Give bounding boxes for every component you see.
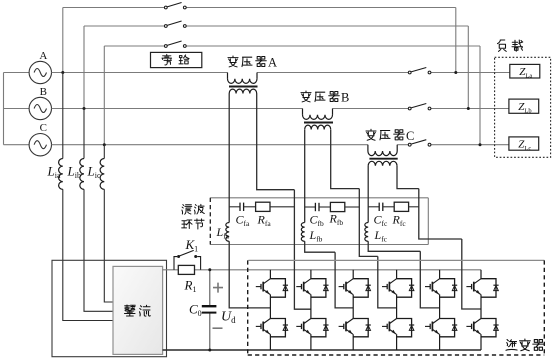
wire: DC- rail xyxy=(163,349,481,351)
label 变压器A xyxy=(228,56,277,70)
label R_fb xyxy=(329,212,344,228)
inductor L_ia xyxy=(59,159,63,190)
label C0 xyxy=(189,302,202,319)
filter section box (滤波环节) xyxy=(210,198,428,245)
load dashed box (负载) xyxy=(495,57,551,157)
label R_fc xyxy=(392,213,407,229)
svg-text:Cfc: Cfc xyxy=(374,213,389,229)
resistor R1 xyxy=(178,265,194,274)
AC source B xyxy=(29,86,51,120)
svg-text:Cfb: Cfb xyxy=(310,213,325,229)
junction dots: bypass taps xyxy=(61,71,481,146)
switch: line switch phase B xyxy=(408,104,431,110)
IGBT leg 2: Q3 (top), Q4 (bottom) with antiparallel diodes xyxy=(296,270,328,350)
svg-text:Cfa: Cfa xyxy=(236,213,251,229)
svg-text:Lic: Lic xyxy=(87,164,101,181)
rectifier block (整流) xyxy=(113,266,163,354)
label L_fc xyxy=(374,228,388,244)
rectifier outer enclosure box xyxy=(52,260,167,356)
switch: bypass phase C xyxy=(164,41,186,47)
wire: transformer A secondary right -> inverter leg2 xyxy=(257,94,311,310)
inverter dashed box (逆变器) xyxy=(248,260,545,355)
svg-text:C: C xyxy=(40,122,47,134)
wire: left bus joining sources xyxy=(4,73,30,145)
label 滤波环节 xyxy=(182,204,205,229)
svg-text:Lib: Lib xyxy=(67,164,81,181)
label Ud xyxy=(221,310,236,326)
load impedance ZLb xyxy=(509,99,539,114)
label 逆变器 xyxy=(506,339,544,351)
svg-text:Lfb: Lfb xyxy=(309,228,323,244)
wire: transformer C secondary right -> inverter leg6 xyxy=(397,166,481,309)
AC source C xyxy=(29,122,51,156)
IGBT leg 5: Q9 (top), Q10 (bottom) with antiparallel diodes xyxy=(425,270,457,350)
wire: transformer B secondary left -> filter b -> inverter leg3 xyxy=(305,130,354,308)
label L_ib xyxy=(67,164,81,181)
load impedance ZLc xyxy=(509,137,539,152)
IGBT leg 6: Q11 (top), Q12 (bottom) with antiparallel diodes xyxy=(466,270,498,350)
label K1 xyxy=(185,237,199,254)
inductor L_ib xyxy=(80,159,84,190)
capacitor C_fa and resistor R_fa branch xyxy=(229,202,294,211)
svg-text:C: C xyxy=(406,129,414,143)
wire: DC+ rail xyxy=(163,269,481,271)
wire: bypass line phase B xyxy=(84,26,468,109)
wire: phase B line xyxy=(52,108,510,110)
svg-text:B: B xyxy=(341,91,349,105)
wire: transformer C secondary left -> filter c -> inverter leg5 xyxy=(368,166,439,308)
IGBT leg 4: Q7 (top), Q8 (bottom) with antiparallel diodes xyxy=(382,270,414,350)
label C_fb xyxy=(310,213,325,229)
switch: bypass phase A xyxy=(164,3,186,9)
wire: transformer A secondary left -> filter a -> inverter leg1 xyxy=(229,94,270,308)
wire: bypass line phase C xyxy=(104,46,480,145)
capacitor C0 xyxy=(202,268,217,351)
label L_fb xyxy=(309,228,323,244)
label 负载 xyxy=(498,40,523,51)
label L_ic xyxy=(87,164,101,181)
AC source A xyxy=(29,50,51,84)
svg-text:A: A xyxy=(268,56,277,70)
wire: bypass line phase A xyxy=(63,8,456,73)
svg-text:R1: R1 xyxy=(184,278,197,295)
label L_fa xyxy=(216,225,230,241)
transformer B (变压器B) xyxy=(303,109,334,130)
capacitor C_fc and resistor R_fc branch xyxy=(368,202,419,211)
svg-text:Lfc: Lfc xyxy=(374,228,388,244)
label C_fa xyxy=(236,213,251,229)
label C_fc xyxy=(374,213,389,229)
wire: phase tap down to rectifier via L_ia xyxy=(63,73,113,321)
wire: phase A line xyxy=(52,72,511,74)
label box: bypass (旁路) xyxy=(151,52,202,67)
switch: line switch phase C xyxy=(408,140,431,146)
svg-text:B: B xyxy=(40,86,47,98)
transformer A (变压器A) xyxy=(228,73,258,94)
wire: transformer B secondary right -> inverter leg4 xyxy=(331,130,397,308)
inductor L_fa xyxy=(226,223,229,242)
polarity minus mark xyxy=(213,327,223,329)
svg-text:Rfa: Rfa xyxy=(257,213,272,229)
label 变压器B xyxy=(301,91,349,105)
inductor L_ic xyxy=(100,159,104,190)
svg-text:C0: C0 xyxy=(189,302,202,319)
transformer C (变压器C) xyxy=(368,145,398,166)
svg-text:Ud: Ud xyxy=(221,310,236,326)
label R_fa xyxy=(257,213,272,229)
switch: bypass phase B xyxy=(164,21,186,27)
svg-text:Rfb: Rfb xyxy=(329,212,344,228)
inductor L_fc xyxy=(365,223,368,242)
wire: phase tap down to rectifier via L_ic xyxy=(104,145,113,302)
wire: phase tap down to rectifier via L_ib xyxy=(84,109,113,312)
svg-text:Lia: Lia xyxy=(47,164,61,181)
label 变压器C xyxy=(366,129,414,143)
switch: line switch phase A xyxy=(408,68,431,74)
label L_ia xyxy=(47,164,61,181)
switch K1 xyxy=(174,250,201,269)
IGBT leg 1: Q1 (top), Q2 (bottom) with antiparallel diodes xyxy=(256,270,288,350)
load impedance ZLa xyxy=(510,64,540,79)
capacitor C_fb and resistor R_fb branch xyxy=(305,202,360,211)
IGBT leg 3: Q5 (top), Q6 (bottom) with antiparallel diodes xyxy=(339,270,371,350)
svg-text:Rfc: Rfc xyxy=(392,213,407,229)
label R1 xyxy=(184,278,197,295)
polarity plus mark xyxy=(213,283,223,293)
inductor L_fb xyxy=(301,223,304,242)
svg-text:A: A xyxy=(39,50,47,62)
svg-text:K1: K1 xyxy=(185,237,199,254)
wire: phase C line xyxy=(52,144,510,146)
